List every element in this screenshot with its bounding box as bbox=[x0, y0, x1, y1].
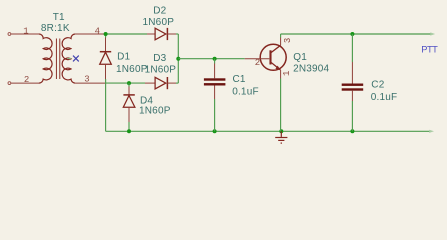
transformer T1 primary winding bbox=[39, 34, 52, 83]
diode D4 cathode pin bbox=[128, 83, 130, 86]
diode D3 anode pin bbox=[145, 82, 155, 84]
transformer T1 pin 4 bbox=[75, 33, 105, 35]
transistor Q1 base bar bbox=[269, 50, 271, 64]
wire left vertical to bottom rail bbox=[105, 83, 107, 131]
svg-text:Q1: Q1 bbox=[293, 52, 307, 63]
svg-text:1: 1 bbox=[282, 71, 292, 76]
wire bottom rail bbox=[106, 130, 431, 132]
transformer T1 core bbox=[56, 39, 59, 80]
capacitor C2 bbox=[342, 84, 364, 91]
diode D2 bbox=[155, 28, 167, 40]
junction at C1 top bbox=[213, 57, 217, 61]
transistor Q1 base pin bbox=[245, 58, 270, 60]
transistor Q1 collector bbox=[271, 45, 281, 52]
diode D1 anode pin bbox=[105, 64, 107, 80]
ground symbol bbox=[275, 131, 287, 143]
junction bottom rail / C2 bbox=[350, 129, 354, 133]
wire D2 cathode to junction bbox=[176, 33, 178, 35]
wire top rail right bbox=[281, 33, 431, 35]
wire mid rail bbox=[106, 82, 145, 84]
diode D2 cathode pin bbox=[167, 33, 176, 35]
capacitor C1 top pin bbox=[214, 59, 216, 79]
svg-text:2N3904: 2N3904 bbox=[293, 63, 329, 74]
wire top rail left bbox=[106, 33, 147, 35]
svg-text:D3: D3 bbox=[153, 53, 166, 64]
diode D3 bbox=[155, 77, 167, 89]
transformer T1 pin 1 bbox=[11, 33, 39, 35]
transistor Q1 collector pin bbox=[280, 38, 282, 46]
svg-text:D2: D2 bbox=[153, 6, 166, 17]
wire vertical D2/D3 connector bbox=[177, 34, 179, 83]
transistor Q1 body circle bbox=[260, 44, 286, 70]
svg-text:3: 3 bbox=[84, 74, 89, 84]
diode D1 cathode pin from top junction bbox=[105, 34, 107, 38]
wire base rail bbox=[178, 58, 244, 60]
capacitor C1 bottom pin bbox=[214, 86, 216, 132]
svg-text:8R:1K: 8R:1K bbox=[41, 23, 70, 34]
pin 1 open end circle bbox=[8, 33, 11, 36]
transistor Q1 emitter with arrow bbox=[271, 62, 281, 70]
svg-text:1: 1 bbox=[23, 26, 28, 36]
svg-text:2: 2 bbox=[24, 75, 29, 85]
diode D3 cathode pin bbox=[167, 82, 176, 84]
bottom rail end arrow bbox=[429, 130, 434, 133]
diode D2 anode pin bbox=[147, 33, 155, 35]
diode D1 bbox=[100, 52, 112, 65]
transformer T1 pin 3 bbox=[75, 82, 105, 84]
svg-text:PTT: PTT bbox=[421, 44, 438, 54]
junction bottom rail / C1 bbox=[213, 129, 217, 133]
svg-text:1N60P: 1N60P bbox=[143, 17, 175, 28]
svg-text:1N60P: 1N60P bbox=[139, 105, 171, 116]
top rail end arrow bbox=[430, 32, 435, 35]
wire collector to top rail bbox=[280, 34, 282, 38]
no-connect pin arrow bbox=[67, 57, 72, 59]
svg-text:0.1uF: 0.1uF bbox=[371, 92, 398, 103]
junction at mid rail / D4 bbox=[127, 81, 131, 85]
junction at top rail / D1 bbox=[104, 32, 108, 36]
diode D4 bbox=[123, 95, 135, 107]
no-connect X flag bbox=[73, 56, 79, 62]
svg-text:1N60P: 1N60P bbox=[145, 64, 177, 75]
capacitor C1 bbox=[204, 78, 226, 85]
junction bottom rail / Q1 emitter and ground bbox=[279, 129, 283, 133]
capacitor C2 top pin bbox=[351, 34, 353, 84]
diode D4 anode pin bbox=[128, 107, 130, 122]
junction bottom rail / D4 bbox=[127, 129, 131, 133]
pin 2 open end circle bbox=[8, 82, 11, 85]
wire emitter to bottom rail bbox=[280, 79, 282, 132]
svg-text:0.1uF: 0.1uF bbox=[232, 87, 259, 98]
svg-text:C2: C2 bbox=[371, 80, 384, 91]
wire D4 anode to bottom rail bbox=[128, 122, 130, 131]
svg-text:T1: T1 bbox=[53, 12, 65, 23]
svg-text:D1: D1 bbox=[117, 52, 130, 63]
transformer T1 pin 2 bbox=[11, 82, 39, 84]
svg-text:1N60P: 1N60P bbox=[116, 64, 148, 75]
svg-text:C1: C1 bbox=[233, 74, 246, 85]
svg-text:2: 2 bbox=[255, 58, 260, 68]
wire D3 cathode to connector bbox=[176, 82, 178, 84]
capacitor C2 bottom pin bbox=[351, 91, 353, 132]
svg-text:3: 3 bbox=[283, 38, 293, 43]
transformer T1 secondary winding bbox=[62, 34, 75, 83]
junction at D2/D3 connector and base rail bbox=[176, 57, 180, 61]
transistor Q1 emitter pin bbox=[280, 70, 282, 79]
wire D1 anode to mid rail bbox=[105, 79, 107, 83]
junction top rail / C2 bbox=[350, 32, 354, 36]
svg-text:4: 4 bbox=[95, 26, 100, 36]
